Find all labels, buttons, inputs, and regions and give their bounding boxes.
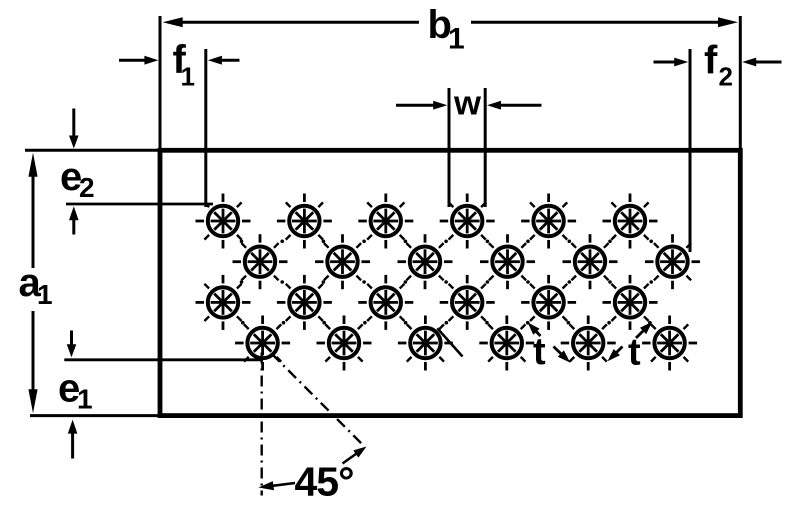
dimension b1 line left segment with left arrow <box>175 21 419 24</box>
dimension a1 lower segment with down arrow <box>32 311 35 399</box>
hole R3C2 <box>277 275 332 330</box>
svg-text:w: w <box>453 85 482 123</box>
diagonal dash-dot 45-degree line <box>272 354 362 444</box>
dimension b1 line right segment with right arrow <box>471 21 726 24</box>
hole R3C5 <box>521 275 576 330</box>
svg-text:1: 1 <box>181 62 195 92</box>
hole R3C6 <box>603 275 658 330</box>
hole R2C4 <box>480 234 535 289</box>
hole R3C4 <box>440 275 495 330</box>
45-degree leader arrow to diagonal line <box>343 451 361 464</box>
45-degree leader arrow to vertical line <box>267 483 295 486</box>
w left arrow <box>396 104 439 107</box>
f2 right arrow <box>751 61 782 64</box>
e1 dimension line tangent to bottom hole row <box>64 358 262 361</box>
f1 extension line down to first hole <box>204 49 207 207</box>
hole R4C5 <box>561 316 616 371</box>
hole R1C5 <box>521 194 576 249</box>
hole R2C3 <box>398 234 453 289</box>
f2 extension line down to last hole <box>689 49 692 252</box>
right edge top extension line <box>739 16 742 150</box>
svg-text:1: 1 <box>77 384 93 415</box>
hole R1C3 <box>358 194 413 249</box>
bottom edge left extension line <box>30 414 160 417</box>
w right arrow <box>495 104 541 107</box>
w extension line left <box>448 88 451 207</box>
hole R3C3 <box>358 275 413 330</box>
f2 left arrow <box>654 61 680 64</box>
dimension a1 upper segment with up arrow <box>32 167 35 268</box>
top edge left extension line <box>25 149 160 152</box>
w extension line right <box>484 88 487 207</box>
f1 right arrow <box>216 59 239 62</box>
hole R4C3 <box>398 316 453 371</box>
hole R1C2 <box>277 194 332 249</box>
hole R1C1 <box>196 194 251 249</box>
svg-text:t: t <box>628 332 641 374</box>
t first up-left arrow <box>533 328 541 336</box>
hole R4C6 <box>642 316 697 371</box>
hole R4C1 <box>235 316 290 371</box>
vertical dash-dot centre line below hole R4C1 <box>261 353 263 496</box>
hole R2C1 <box>233 234 288 289</box>
hole R2C5 <box>563 234 618 289</box>
45-degree lattice centre-line dots <box>240 240 653 325</box>
hole R2C2 <box>315 234 370 289</box>
svg-text:1: 1 <box>37 279 53 310</box>
hole R3C1 <box>196 275 251 330</box>
stray diagonal pitch line near hole R4C3 <box>437 328 462 356</box>
svg-text:2: 2 <box>79 172 95 203</box>
hole R4C4 <box>479 316 534 371</box>
t second down-left arrow <box>613 347 622 356</box>
svg-text:1: 1 <box>448 23 465 56</box>
svg-text:f: f <box>704 38 718 82</box>
f1 left arrow <box>119 59 150 62</box>
left edge top extension line <box>159 16 162 150</box>
svg-text:t: t <box>533 331 546 373</box>
e1 up arrow below plate bottom edge <box>71 428 74 459</box>
t second up-right arrow <box>636 327 647 338</box>
plate outline <box>160 150 740 415</box>
e2 up arrow below line <box>72 215 75 235</box>
svg-text:45°: 45° <box>295 459 354 505</box>
t first down-right arrow <box>554 347 565 358</box>
hole R2C6 <box>645 234 700 289</box>
e1 down arrow above line <box>70 331 73 350</box>
hole R1C4 <box>440 194 495 249</box>
e2 down arrow above plate top edge <box>72 109 75 141</box>
e2 dimension line tangent to first hole row <box>66 203 213 206</box>
svg-text:2: 2 <box>719 62 733 92</box>
hole R1C6 <box>603 194 658 249</box>
hole R4C2 <box>317 316 372 371</box>
